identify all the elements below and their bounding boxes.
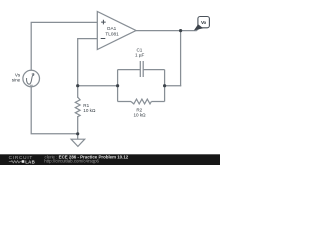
svg-text:TL081: TL081 bbox=[105, 32, 119, 37]
op-amp OA1 triangle bbox=[97, 12, 136, 50]
wire RC right node to output riser bbox=[165, 85, 181, 87]
op-amp minus input marker bbox=[101, 38, 106, 40]
svg-text:10 kΩ: 10 kΩ bbox=[83, 108, 96, 113]
voltage source sine glyph bbox=[27, 74, 35, 86]
resistor R2 branch wires bbox=[118, 101, 165, 103]
wire feedback node to RC network bbox=[78, 85, 118, 87]
node junction dot output bbox=[179, 29, 182, 32]
svg-text:10 kΩ: 10 kΩ bbox=[133, 113, 146, 118]
RC network frame left side bbox=[117, 70, 119, 102]
node junction dot RC left bbox=[116, 84, 119, 87]
capacitor C1 plates bbox=[140, 61, 143, 77]
resistor R2 zigzag bbox=[131, 99, 151, 104]
RC network frame right side bbox=[164, 70, 166, 102]
svg-text:LAB: LAB bbox=[25, 159, 35, 164]
wire R1 top stub bbox=[77, 86, 79, 98]
node flag Vo tail bbox=[194, 24, 203, 30]
node flag Vo box bbox=[198, 17, 210, 28]
wire R1 bottom to ground junction bbox=[77, 117, 79, 134]
node junction dot feedback left bbox=[76, 84, 79, 87]
svg-text:http://circuitlab.com/c4rsqp6: http://circuitlab.com/c4rsqp6 bbox=[44, 159, 99, 164]
wire op-amp output to Vo flag bbox=[136, 27, 200, 30]
footer logo LED square bbox=[22, 160, 25, 163]
capacitor C1 branch wires bbox=[118, 69, 165, 71]
wire output riser bbox=[180, 31, 182, 86]
node junction dot RC right bbox=[163, 84, 166, 87]
svg-text:OA1: OA1 bbox=[107, 26, 117, 31]
op-amp plus input marker bbox=[101, 20, 106, 25]
node junction dot ground net bbox=[76, 132, 79, 135]
footer logo resistor squiggle bbox=[9, 161, 22, 163]
wire ground stub bbox=[77, 134, 79, 140]
resistor R1 zigzag bbox=[75, 97, 80, 116]
wire inverting input from feedback node bbox=[78, 39, 98, 86]
ground symbol bbox=[71, 139, 85, 146]
wire source bottom to ground net bbox=[31, 87, 77, 134]
svg-text:sine: sine bbox=[12, 78, 21, 83]
footer bar bbox=[0, 154, 220, 165]
svg-text:Vo: Vo bbox=[201, 20, 207, 25]
svg-text:1 µF: 1 µF bbox=[135, 53, 144, 58]
wire non-inverting input from source bbox=[31, 22, 97, 70]
voltage source VS circle bbox=[23, 70, 40, 87]
